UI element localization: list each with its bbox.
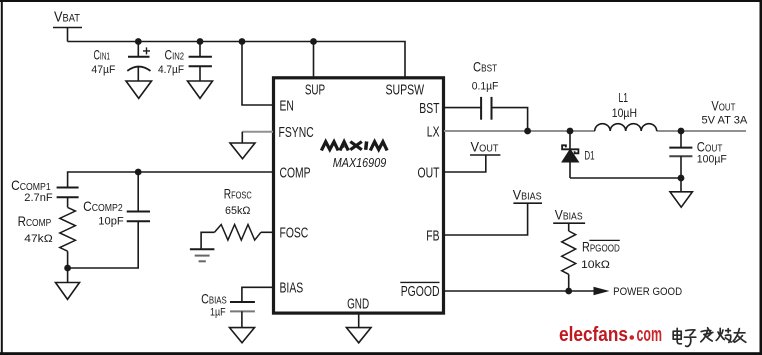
node VBAT terminal (53, 9, 82, 42)
svg-text:MAX16909: MAX16909 (333, 155, 387, 170)
svg-text:BIAS: BIAS (280, 281, 304, 297)
svg-text:10kΩ: 10kΩ (581, 259, 610, 271)
node VBIAS terminal (RPGOOD) (553, 206, 585, 231)
wire GND pin (358, 313, 360, 328)
svg-text:COMP: COMP (280, 165, 311, 181)
svg-text:LX: LX (427, 124, 440, 140)
svg-text:10pF: 10pF (98, 215, 124, 227)
node junction dot COMP/CCOMP2 (135, 169, 142, 176)
op-amp U1 MAX16909 IC box (274, 78, 444, 313)
wire FSYNC (gray) (242, 132, 273, 143)
svg-text:100µF: 100µF (697, 154, 727, 166)
capacitor CCOMP2 10pF (83, 172, 150, 227)
svg-text:FSYNC: FSYNC (279, 125, 314, 141)
svg-text:com: com (637, 323, 663, 346)
wire EN (242, 42, 273, 106)
ground (GND pin) (346, 328, 371, 343)
node junction dot SUP branch (310, 38, 317, 45)
wire SUP pin (313, 42, 315, 78)
svg-text:POWER GOOD: POWER GOOD (613, 286, 682, 298)
resistor RFOSC 65k (201, 187, 273, 250)
svg-text:BST: BST (419, 101, 439, 117)
svg-text:SUP: SUP (305, 82, 325, 98)
ground (RCOMP) (56, 283, 80, 300)
node junction dot CBST/LX (524, 128, 531, 135)
svg-text:1µF: 1µF (210, 307, 226, 319)
svg-text:SUPSW: SUPSW (385, 82, 424, 98)
wire LX rail (gray) (444, 130, 746, 132)
inductor L1 10uH (595, 91, 657, 131)
node VOUT output label (702, 97, 748, 126)
svg-text:FB: FB (426, 228, 439, 244)
svg-text:10µH: 10µH (612, 106, 637, 120)
capacitor CBST 0.1uF (444, 60, 528, 132)
svg-text:elecfans: elecfans (559, 323, 628, 346)
resistor RPGOOD 10k (562, 231, 620, 291)
wire OUT to VOUT terminal (444, 139, 500, 173)
svg-text:2.7nF: 2.7nF (24, 192, 53, 204)
svg-text:0.1µF: 0.1µF (472, 80, 499, 92)
svg-text:OUT: OUT (418, 165, 440, 181)
wire COMP (68, 172, 273, 188)
svg-text:65kΩ: 65kΩ (225, 205, 250, 217)
diode D1 schottky (562, 128, 681, 178)
capacitor CBIAS 1uF (201, 287, 273, 327)
ground (CIN2) (188, 81, 213, 98)
svg-text:PGOOD: PGOOD (401, 284, 440, 300)
capacitor COUT 100uF (669, 128, 727, 192)
wire CCOMP2 bottom (68, 221, 139, 282)
wire FB to VBIAS terminal (444, 186, 542, 235)
ground (RFOSC signal ground) (190, 249, 215, 261)
capacitor CIN1 47uF polarized (91, 42, 150, 82)
elecfans watermark logo (559, 323, 662, 346)
MAXIM logo (321, 141, 387, 150)
svg-text:47kΩ: 47kΩ (24, 233, 52, 245)
capacitor CIN2 4.7uF (158, 42, 212, 82)
node junction dot RCOMP bottom (64, 265, 71, 272)
ground (COUT) (670, 192, 692, 207)
node junction dot CIN2 (197, 38, 204, 45)
node junction dot CIN1 (135, 38, 142, 45)
svg-text:4.7µF: 4.7µF (158, 64, 184, 76)
svg-text:GND: GND (347, 297, 369, 313)
wire PGOOD output (444, 286, 682, 298)
wire top VBAT rail (68, 42, 406, 78)
svg-text:L1: L1 (619, 91, 629, 105)
svg-text:FOSC: FOSC (280, 226, 309, 242)
ground (CBIAS) (230, 328, 255, 343)
svg-text:D1: D1 (584, 151, 594, 163)
ground (CIN1) (126, 81, 152, 98)
svg-text:47µF: 47µF (91, 64, 115, 76)
svg-text:5V AT 3A: 5V AT 3A (702, 114, 748, 126)
resistor RCOMP 47k (18, 207, 76, 268)
elecfans watermark chinese characters (673, 328, 746, 347)
svg-text:EN: EN (280, 98, 294, 114)
ground (FSYNC) (230, 143, 255, 159)
capacitor CCOMP1 2.7nF (11, 178, 79, 208)
node junction dot EN branch (239, 38, 246, 45)
